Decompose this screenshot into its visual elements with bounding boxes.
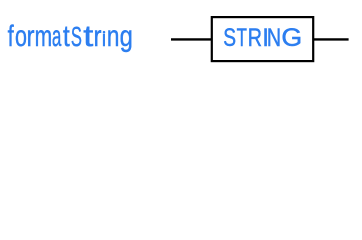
wire (left connector) [171, 38, 212, 40]
svg-text:r: r [93, 20, 101, 53]
label STRING [223, 24, 302, 52]
svg-text:n: n [107, 20, 120, 53]
svg-text:m: m [35, 20, 52, 53]
svg-text:f: f [8, 20, 15, 53]
svg-text:N: N [267, 24, 281, 52]
svg-text:t: t [63, 20, 70, 53]
svg-text:T: T [237, 24, 247, 52]
terminal box STRING [212, 17, 313, 61]
node formatString (non-terminal label) [8, 20, 133, 53]
svg-text:S: S [223, 24, 236, 52]
svg-text:r: r [26, 20, 34, 53]
wire (right connector) [314, 38, 349, 40]
svg-text:g: g [120, 20, 133, 53]
svg-text:a: a [52, 20, 62, 53]
svg-text:S: S [71, 21, 82, 52]
svg-text:R: R [248, 24, 262, 52]
svg-text:G: G [281, 24, 302, 52]
railroad diagram: formatString -> STRING terminal [0, 0, 362, 84]
svg-text:o: o [15, 20, 27, 53]
